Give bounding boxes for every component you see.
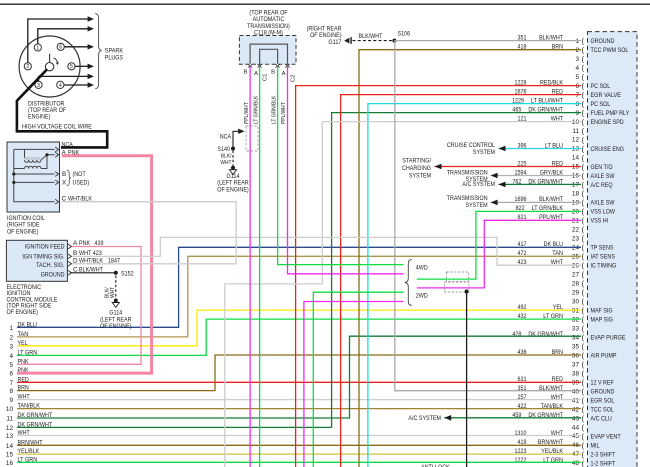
connector C118 dashed box	[239, 36, 296, 65]
wire 4 LT GRN 432 to pin32 MAP SIG	[17, 319, 581, 355]
svg-text:5: 5	[9, 362, 13, 369]
wire 2 TAN 472 to pin25 IAT SENS	[17, 256, 581, 337]
distributor terminal 5	[68, 63, 75, 70]
svg-text:36: 36	[572, 352, 580, 359]
C118 terminal mark x=259.6	[257, 64, 261, 67]
svg-text:GROUND: GROUND	[591, 388, 615, 395]
svg-text:11: 11	[6, 416, 13, 423]
wire spark plug 2 top	[28, 19, 88, 63]
svg-text:G117: G117	[328, 39, 341, 46]
ignition coil box	[7, 142, 60, 212]
distributor terminal 2	[24, 63, 31, 70]
wire LT GRN/BLK C118 to 4WD sw	[278, 67, 404, 265]
wire BLK/WHT S140 to G114 dashed	[232, 151, 234, 167]
svg-text:PC SOL: PC SOL	[591, 83, 611, 90]
svg-text:3: 3	[575, 56, 579, 63]
wire 351 BLK/WHT S106 to pin1 GROUND	[394, 40, 581, 42]
svg-text:OF ENGINE): OF ENGINE)	[100, 323, 131, 330]
svg-text:A/C REQ: A/C REQ	[591, 182, 613, 189]
svg-text:9: 9	[575, 110, 579, 117]
wire PPL/WHT 2WD sw down offpage	[304, 302, 404, 467]
wire PPL/WHT C118 to 4WD sw	[288, 67, 404, 274]
wire 821 PPL/WHT 2WD sw to pin21 VSS HI	[417, 220, 581, 288]
svg-text:20: 20	[572, 209, 580, 216]
svg-text:PPL/WHT: PPL/WHT	[281, 102, 287, 124]
ECM terminal chevron y=272.8	[68, 270, 71, 275]
svg-text:IGN TIMING SIG.: IGN TIMING SIG.	[22, 253, 64, 260]
svg-text:26: 26	[572, 263, 580, 270]
wire number / color labels at connector	[512, 35, 564, 464]
arrow to transmission system (axle sw 2)	[491, 200, 498, 206]
svg-text:LT GRN/BLK: LT GRN/BLK	[271, 95, 277, 124]
4WD switch connector dashed outline	[445, 272, 470, 292]
label IGNITION COIL	[7, 215, 45, 236]
svg-text:PC SOL: PC SOL	[591, 101, 611, 108]
svg-text:A: A	[254, 71, 258, 77]
svg-text:OF ENGINE): OF ENGINE)	[7, 309, 38, 316]
svg-text:WHT 423: WHT 423	[79, 250, 102, 257]
svg-text:42: 42	[572, 406, 580, 413]
wire 5 PNK 439 to ECM ign feed A	[17, 247, 141, 365]
wire 14 BRN/WHT 419 to pin46 MIL	[17, 444, 581, 446]
svg-text:PPL/WHT: PPL/WHT	[244, 102, 250, 124]
svg-text:PLUGS: PLUGS	[105, 54, 123, 61]
wire 351 BLK/WHT S106 down to pin40 GROUND	[395, 41, 581, 391]
svg-text:A/C SYSTEM: A/C SYSTEM	[462, 181, 495, 188]
svg-text:NCA: NCA	[220, 134, 232, 141]
ECM pigtail wire list 1-16 labels	[6, 321, 52, 467]
wire 6 PNK thick to coil A	[17, 156, 152, 373]
label TRANSMISSION SYSTEM 1	[447, 169, 488, 183]
svg-text:44: 44	[572, 424, 580, 431]
svg-text:C2: C2	[291, 75, 297, 82]
label ELECTRONIC IGNITION CONTROL MODULE	[7, 284, 58, 316]
svg-text:9: 9	[9, 397, 13, 404]
svg-text:SYSTEM: SYSTEM	[473, 149, 495, 156]
svg-text:WHT: WHT	[220, 160, 231, 166]
svg-text:X: X	[62, 179, 67, 186]
wire 1847 WHT/BLK ECM D to coil C	[62, 202, 236, 264]
svg-text:WHT/BLK: WHT/BLK	[68, 196, 93, 203]
svg-text:3: 3	[37, 83, 40, 89]
wire 11 DK GRN/WHT 428 to pin34 EVAP PURGE	[17, 336, 581, 418]
distributor rotor	[45, 54, 59, 71]
svg-text:19: 19	[572, 200, 580, 207]
labels ECM terminals	[73, 240, 120, 273]
svg-text:428: 428	[512, 331, 521, 338]
svg-text:ENGINE): ENGINE)	[28, 114, 50, 121]
svg-text:7: 7	[9, 380, 13, 387]
svg-text:EGR SOL: EGR SOL	[591, 397, 615, 404]
svg-text:GROUND: GROUND	[41, 271, 65, 278]
svg-text:21: 21	[572, 218, 580, 225]
wire BLK/WHT S152 to G114 dashed	[115, 276, 117, 299]
C118 internal jumper inner	[260, 49, 278, 64]
wire 423 WHT ECM B to pin26 IC TIMING	[70, 237, 581, 265]
wire 7 RED 631 to pin39 12V REF	[17, 381, 581, 383]
svg-text:7: 7	[575, 92, 579, 99]
svg-text:4: 4	[575, 65, 579, 72]
wire 1229 LT BLU/WHT pin8 PC SOL	[368, 104, 581, 467]
svg-text:1-2 SHIFT: 1-2 SHIFT	[591, 460, 616, 467]
svg-text:22: 22	[572, 227, 580, 234]
svg-text:GEN T/O: GEN T/O	[591, 164, 613, 171]
svg-text:27: 27	[572, 272, 580, 279]
label BLK/WHT rotated (S152)	[104, 287, 116, 298]
svg-text:48: 48	[572, 460, 580, 467]
svg-text:IGNITION FEED: IGNITION FEED	[25, 243, 65, 250]
svg-text:1847: 1847	[108, 258, 120, 265]
svg-text:EGR VALVE: EGR VALVE	[591, 92, 622, 99]
svg-text:TCC SOL: TCC SOL	[591, 406, 615, 413]
wire 1228 RED/BLK pin6 PC SOL	[296, 86, 581, 467]
labels C118 wire colors rotated	[244, 95, 287, 124]
svg-text:11: 11	[572, 128, 579, 135]
svg-text:2: 2	[26, 64, 29, 70]
wire spark plug 6	[64, 46, 88, 48]
svg-text:5: 5	[70, 64, 73, 70]
labels B X NOT USED	[62, 171, 89, 186]
svg-text:S152: S152	[121, 270, 134, 277]
svg-text:A: A	[62, 150, 67, 157]
svg-text:PNK: PNK	[79, 240, 91, 247]
svg-text:45: 45	[572, 433, 580, 440]
svg-text:29: 29	[572, 290, 580, 297]
svg-text:IC TIMING: IC TIMING	[591, 263, 617, 270]
svg-text:18: 18	[572, 191, 580, 198]
wire spark plug 3	[39, 76, 89, 81]
svg-text:VSS HI: VSS HI	[591, 218, 609, 225]
wire 459 DK GRN/WHT pin43 A/C CLU	[444, 417, 581, 419]
svg-text:16: 16	[6, 460, 14, 467]
svg-text:23: 23	[572, 236, 580, 243]
connector pin numbers and brackets	[572, 37, 585, 467]
svg-text:TACH. SIG.: TACH. SIG.	[36, 262, 65, 269]
svg-text:WHT: WHT	[110, 287, 116, 298]
svg-text:32: 32	[572, 316, 580, 323]
svg-text:SYSTEM: SYSTEM	[409, 173, 431, 180]
distributor terminal 1	[34, 44, 41, 52]
wire 3 YEL 492 to pin31 MAF SIG	[17, 310, 581, 346]
svg-text:33: 33	[572, 325, 580, 332]
svg-text:EVAP PURGE: EVAP PURGE	[591, 335, 626, 342]
svg-text:TP SENS: TP SENS	[591, 245, 614, 252]
wire 396 LT BLU pin13 cruise	[499, 148, 582, 150]
svg-text:30: 30	[572, 299, 580, 306]
svg-text:MAP SIG: MAP SIG	[591, 317, 613, 324]
C118 terminal mark x=250.1	[248, 64, 252, 67]
svg-text:6: 6	[575, 83, 579, 90]
NCA stub wire with arrow	[233, 131, 239, 148]
svg-text:GROUND: GROUND	[591, 38, 615, 45]
arrow to cruise control system	[499, 146, 506, 152]
electronic ignition control module box	[6, 240, 67, 281]
arrow to a/c system (a/c clu)	[444, 415, 451, 421]
svg-text:TCC PWM SOL: TCC PWM SOL	[591, 47, 629, 54]
svg-text:2-3 SHIFT: 2-3 SHIFT	[591, 451, 616, 458]
ECM terminal chevron y=246.5	[68, 244, 71, 249]
wire spark plug 5	[75, 65, 88, 67]
wire BLK/WHT ECM C to S152	[70, 272, 116, 274]
wire 10 TAN/BLK 422 to pin42 TCC SOL	[17, 408, 581, 410]
wire LT GRN/BLK 2WD sw down offpage	[313, 292, 403, 467]
splice above G114 mid	[231, 166, 235, 170]
svg-text:BLK/: BLK/	[221, 154, 232, 160]
coil terminal chevron y=154.8	[55, 152, 58, 157]
label SPARK PLUGS	[105, 47, 124, 61]
label BLK/WHT (S140)	[220, 154, 231, 167]
brace spark plugs	[95, 14, 101, 89]
svg-text:WHT/BLK: WHT/BLK	[79, 258, 104, 265]
4WD switch splice and wire down	[465, 290, 469, 294]
ground G117 symbol	[344, 37, 352, 44]
svg-text:15: 15	[572, 164, 580, 171]
label A PNK	[62, 150, 80, 157]
svg-text:S106: S106	[398, 31, 411, 38]
arrow to starting charging system	[435, 164, 442, 170]
svg-text:5: 5	[575, 74, 579, 81]
label DISTRIBUTOR	[28, 100, 66, 120]
svg-text:AIR PUMP: AIR PUMP	[591, 353, 617, 360]
wire 16 LT GRN 1222 to pin48 1-2 SHIFT	[17, 461, 581, 463]
wire 418 BRN pin2 TCC PWM SOL	[359, 50, 581, 467]
C118 internal jumper outer	[250, 44, 287, 64]
svg-text:D: D	[73, 258, 78, 265]
ignition coil internals	[14, 149, 55, 201]
label G117 right rear of engine	[307, 26, 342, 46]
coil terminal chevron y=149.4	[55, 147, 58, 152]
wire high voltage coil (thick)	[17, 69, 107, 147]
svg-text:15: 15	[6, 452, 14, 459]
svg-text:VSS LOW: VSS LOW	[591, 209, 616, 216]
svg-text:8: 8	[9, 388, 13, 395]
svg-text:3: 3	[9, 343, 13, 350]
C118 terminal mark x=277.6	[275, 64, 279, 67]
svg-text:2WD: 2WD	[416, 292, 428, 299]
svg-text:A: A	[282, 71, 286, 77]
splice S106	[392, 39, 396, 43]
svg-text:B: B	[244, 70, 248, 76]
svg-text:14: 14	[6, 443, 14, 450]
wire 822 LT GRN/BLK 4WD sw to pin20 VSS LOW	[417, 211, 581, 279]
wire 225 RED pin15 GEN T/O	[435, 166, 582, 168]
svg-text:1: 1	[575, 38, 579, 45]
svg-text:34: 34	[572, 334, 580, 341]
svg-text:4: 4	[9, 353, 13, 360]
svg-text:AXLE SW: AXLE SW	[591, 200, 616, 207]
wire 1 DK BLU 417 to pin24 TP SENS	[17, 247, 581, 327]
distributor cap circle	[19, 36, 80, 97]
svg-text:LT GRN/BLK: LT GRN/BLK	[253, 95, 259, 124]
svg-text:B: B	[271, 70, 275, 76]
svg-text:10: 10	[572, 119, 580, 126]
svg-text:CRUISE ENG: CRUISE ENG	[591, 146, 625, 153]
distributor terminal 4	[57, 81, 64, 89]
wire 15 YEL/BLK 1223 to pin47 2-3 SHIFT	[17, 453, 581, 455]
arrow to transmission system (axle sw)	[491, 173, 498, 179]
svg-text:OF ENGINE): OF ENGINE)	[217, 187, 248, 194]
svg-text:STARTING/: STARTING/	[402, 158, 431, 165]
svg-text:A: A	[73, 240, 78, 247]
svg-text:12: 12	[572, 137, 580, 144]
svg-text:12 V REF: 12 V REF	[591, 379, 614, 386]
wire 12 DK GRN/WHT 465 to pin9 FUEL PMP RLY	[17, 113, 581, 428]
wire 9 WHT 257 to pin41 EGR SOL	[17, 399, 581, 401]
svg-text:2: 2	[575, 47, 579, 54]
svg-text:2: 2	[9, 335, 13, 342]
svg-text:HIGH VOLTAGE COIL WIRE: HIGH VOLTAGE COIL WIRE	[22, 124, 92, 131]
svg-text:A/C CLU: A/C CLU	[591, 415, 613, 422]
splice above G114	[114, 299, 118, 303]
wire 121 WHT pin10 ENGINE SPD	[225, 122, 581, 467]
dashed inline connector on PPL/WHT	[246, 126, 258, 151]
svg-text:OF ENGINE): OF ENGINE)	[7, 229, 38, 236]
C118 terminal mark x=287.5	[285, 64, 289, 67]
ground G114 left	[112, 303, 119, 308]
arrow to a/c system (a/c req)	[499, 182, 506, 188]
svg-text:37: 37	[572, 361, 580, 368]
wire 8 BRN 436 to pin36 AIR PUMP	[17, 355, 581, 391]
labels C118 pins B A C1 B A C2	[244, 70, 297, 83]
svg-text:6: 6	[9, 371, 13, 378]
svg-text:C1: C1	[263, 74, 269, 81]
svg-text:16: 16	[572, 173, 580, 180]
wire 1594 GRY/BLK pin16 AXLE SW	[491, 175, 581, 177]
ECM terminal chevron y=263.8	[68, 261, 71, 266]
svg-text:28: 28	[572, 281, 580, 288]
svg-text:PNK: PNK	[68, 150, 80, 157]
svg-text:439: 439	[95, 240, 104, 247]
svg-text:SPARK: SPARK	[105, 47, 124, 54]
svg-text:ENGINE SPD: ENGINE SPD	[591, 119, 625, 126]
svg-text:IAT SENS: IAT SENS	[591, 254, 616, 261]
label TRANSMISSION SYSTEM 2	[447, 195, 488, 209]
splice S140	[231, 147, 235, 151]
svg-text:1: 1	[36, 45, 39, 51]
ECM terminal chevron y=256.4	[68, 254, 71, 259]
ground G114 mid	[229, 170, 236, 175]
svg-text:38: 38	[572, 370, 580, 377]
svg-text:NCA: NCA	[62, 142, 74, 149]
wire 13 WHT 1310 to pin45 EVAP VENT	[17, 435, 581, 437]
svg-text:6: 6	[59, 45, 62, 51]
svg-text:13: 13	[572, 146, 580, 153]
brace transfer case switch group	[405, 260, 412, 306]
svg-text:B: B	[62, 171, 66, 178]
connector PCM block	[588, 32, 638, 467]
svg-text:FUEL PMP RLY: FUEL PMP RLY	[591, 110, 630, 117]
svg-text:(NOT: (NOT	[73, 171, 86, 178]
wire 1696 BLK/WHT pin19 AXLE SW	[491, 201, 581, 203]
svg-text:17: 17	[572, 182, 580, 189]
svg-text:43: 43	[572, 415, 580, 422]
coil terminal chevron y=201.7	[55, 199, 58, 204]
svg-text:C118 (M-M): C118 (M-M)	[254, 29, 283, 36]
svg-text:CHARGING: CHARGING	[402, 165, 431, 172]
wire LT GRN/BLK C118 A down offpage	[259, 67, 261, 467]
wire BLK/WHT G117 to S106 dashed	[353, 40, 395, 42]
label CRUISE CONTROL SYSTEM	[447, 142, 495, 156]
svg-text:MAF SIG: MAF SIG	[591, 308, 613, 315]
wire PPL/WHT C118 B down offpage	[249, 67, 251, 467]
svg-text:BLK/WHT: BLK/WHT	[359, 33, 383, 40]
svg-text:4WD: 4WD	[416, 265, 428, 272]
svg-text:14: 14	[572, 155, 580, 162]
coil terminal chevron y=182.4	[55, 180, 58, 185]
svg-text:35: 35	[572, 343, 580, 350]
svg-text:USED): USED)	[73, 179, 90, 186]
svg-text:13: 13	[6, 433, 14, 440]
svg-text:25: 25	[572, 254, 580, 261]
svg-text:1: 1	[9, 325, 13, 332]
svg-text:AXLE SW: AXLE SW	[591, 173, 616, 180]
svg-text:B: B	[73, 250, 77, 257]
wire spark plug 4	[64, 84, 88, 86]
svg-text:SYSTEM: SYSTEM	[466, 202, 488, 209]
wire 762 DK GRN/WHT pin17 A/C REQ	[499, 183, 582, 185]
svg-text:MIL: MIL	[591, 442, 600, 449]
border top rule	[0, 4, 650, 5]
svg-text:EVAP VENT: EVAP VENT	[591, 433, 621, 440]
svg-text:A/C SYSTEM: A/C SYSTEM	[408, 415, 441, 422]
svg-text:4: 4	[59, 83, 62, 89]
wire 1676 RED pin7 EGR VALVE	[341, 95, 581, 467]
coil terminal chevron y=174	[55, 172, 58, 177]
svg-text:31: 31	[572, 307, 580, 314]
label C118 title	[247, 10, 290, 37]
splice S152	[114, 271, 118, 275]
svg-text:8: 8	[575, 101, 579, 108]
wire spark plug 1 second	[38, 29, 88, 44]
distributor terminal 6	[57, 43, 64, 51]
label STARTING/CHARGING SYSTEM	[402, 158, 431, 180]
svg-text:10: 10	[6, 406, 14, 413]
svg-text:12: 12	[6, 425, 14, 432]
svg-text:40: 40	[572, 388, 580, 395]
svg-text:C: C	[62, 196, 67, 203]
distributor terminal 3	[35, 81, 42, 89]
svg-text:41: 41	[572, 397, 580, 404]
label C WHT/BLK	[62, 196, 93, 203]
connector pin function labels	[591, 38, 630, 467]
svg-text:DK GRN/WHT: DK GRN/WHT	[528, 331, 563, 338]
svg-text:24: 24	[572, 245, 580, 252]
svg-text:S140: S140	[217, 146, 230, 153]
wire BLK 4WD switch down offpage	[466, 292, 468, 467]
